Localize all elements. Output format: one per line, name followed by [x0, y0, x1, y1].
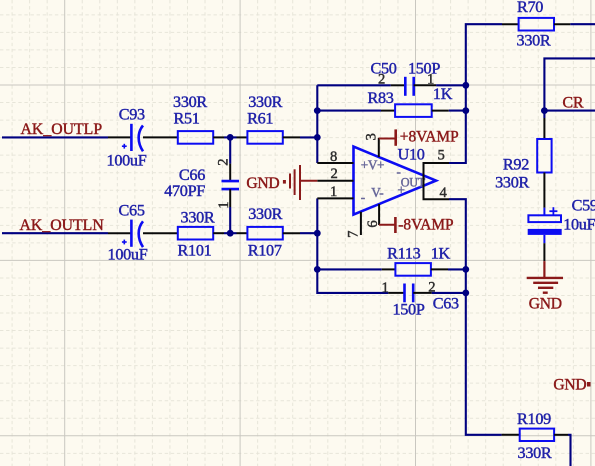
junction node row2/C66 [227, 230, 234, 237]
svg-text:R107: R107 [248, 241, 282, 259]
svg-text:5: 5 [438, 147, 445, 163]
resistor R51 [161, 131, 224, 144]
svg-text:R92: R92 [503, 156, 529, 174]
svg-text:470PF: 470PF [164, 182, 205, 200]
resistor R107 [237, 227, 301, 240]
svg-text:R113: R113 [387, 245, 420, 263]
wire R109 right down [568, 435, 571, 466]
power port GND (C59) [527, 261, 563, 313]
junction CR [541, 107, 548, 114]
svg-text:GND: GND [529, 296, 562, 313]
svg-text:2: 2 [216, 159, 232, 166]
junction row2/feedback [314, 230, 321, 237]
svg-text:330R: 330R [248, 93, 282, 111]
svg-text:CR: CR [563, 95, 585, 112]
wire row1 right [300, 136, 318, 138]
wire CR [544, 110, 595, 112]
wire C50 left [317, 84, 390, 86]
capacitor C65 [108, 220, 161, 248]
wire R83 right [449, 110, 466, 112]
svg-text:-8VAMP: -8VAMP [398, 217, 453, 234]
junction row1/feedback [314, 134, 321, 141]
op-amp U10 [354, 147, 437, 215]
svg-text:V-: V- [371, 185, 383, 200]
svg-text:2: 2 [331, 166, 338, 182]
svg-text:330R: 330R [248, 205, 282, 223]
svg-text:GND: GND [553, 376, 586, 393]
svg-text:AK_OUTLN: AK_OUTLN [20, 217, 105, 234]
svg-text:330R: 330R [517, 32, 551, 50]
pin 1 [317, 197, 353, 199]
svg-text:8: 8 [330, 149, 337, 165]
capacitor C93 [108, 124, 161, 152]
resistor R83 [381, 104, 449, 117]
pin 8 [317, 162, 353, 164]
wire output to R70 [449, 24, 502, 163]
resistor R109 [502, 429, 568, 441]
junction node row1/C66 [227, 134, 234, 141]
svg-text:6: 6 [365, 221, 381, 228]
wire top right [544, 58, 595, 110]
svg-text:R61: R61 [247, 110, 273, 128]
resistor R113 [382, 263, 448, 276]
wire output down [449, 199, 502, 435]
svg-text:150P: 150P [408, 59, 440, 77]
svg-text:-: - [361, 190, 365, 205]
svg-text:330R: 330R [173, 93, 207, 111]
svg-text:10uF: 10uF [563, 216, 595, 234]
svg-text:C93: C93 [119, 105, 145, 123]
svg-text:1: 1 [216, 202, 232, 209]
svg-text:C59: C59 [572, 196, 595, 214]
svg-text:100uF: 100uF [107, 151, 147, 169]
wire row1 junction [224, 136, 237, 138]
svg-text:C65: C65 [119, 201, 145, 219]
svg-text:U10: U10 [398, 146, 425, 164]
svg-text:R101: R101 [178, 241, 212, 259]
power port -8VAMP [379, 217, 454, 234]
wire row2 junction [224, 232, 237, 234]
wire R113 right [448, 268, 466, 270]
pin 3 [378, 138, 380, 157]
junction C50/out [462, 82, 469, 89]
svg-text:R70: R70 [517, 0, 543, 16]
capacitor C59 [528, 207, 562, 261]
svg-text:1K: 1K [433, 85, 453, 103]
svg-text:330R: 330R [495, 174, 529, 192]
svg-text:150P: 150P [392, 301, 424, 319]
pin 7 [360, 212, 362, 235]
svg-text:+V+: +V+ [361, 157, 385, 172]
wire R83 left [317, 110, 381, 112]
pin 6 [378, 204, 380, 225]
net label GND (right edge) [553, 376, 590, 393]
wire feedback left lower [317, 198, 388, 293]
wire AK_OUTLN left [2, 232, 108, 234]
svg-text:7: 7 [345, 231, 361, 238]
junction R83/out [462, 107, 469, 114]
svg-text:+: + [398, 183, 405, 198]
junction C63/out [462, 290, 469, 297]
svg-text:+8VAMP: +8VAMP [400, 129, 459, 146]
resistor R70 [502, 18, 570, 31]
wire feedback left upper [316, 85, 318, 163]
wire R113 left [317, 268, 382, 270]
resistor R61 [237, 131, 301, 144]
svg-text:AK_OUTLP: AK_OUTLP [21, 121, 103, 138]
svg-text:330R: 330R [181, 209, 215, 227]
svg-text:R109: R109 [517, 410, 551, 428]
svg-text:3: 3 [364, 134, 380, 141]
svg-text:1: 1 [382, 280, 389, 296]
svg-text:R83: R83 [367, 89, 393, 107]
power port +8VAMP [379, 129, 459, 146]
svg-text:1: 1 [330, 184, 337, 200]
svg-text:2: 2 [378, 71, 385, 87]
svg-text:GND: GND [246, 175, 279, 192]
capacitor C63 [388, 284, 432, 303]
capacitor C66 [222, 137, 240, 233]
junction R113/out [462, 266, 469, 273]
junction R83/feedback [314, 107, 321, 114]
wire C63 right [432, 292, 466, 294]
svg-text:100uF: 100uF [108, 246, 148, 264]
svg-text:1K: 1K [431, 245, 451, 263]
junction R113/feedback [314, 266, 321, 273]
svg-text:C63: C63 [433, 294, 459, 312]
svg-text:4: 4 [440, 185, 448, 201]
wire row2 right [300, 232, 318, 234]
power port GND (pin 2) [246, 165, 317, 200]
svg-text:330R: 330R [518, 444, 552, 462]
svg-text:R51: R51 [173, 110, 199, 128]
wire AK_OUTLP left [2, 136, 108, 138]
pin 2 [317, 180, 353, 182]
pins 5 and 4 bracket [424, 163, 450, 199]
resistor R101 [161, 227, 224, 240]
capacitor C50 [391, 77, 436, 96]
wire R70 right [570, 23, 595, 25]
resistor R92 [537, 111, 551, 208]
wire C50 right [436, 84, 466, 86]
